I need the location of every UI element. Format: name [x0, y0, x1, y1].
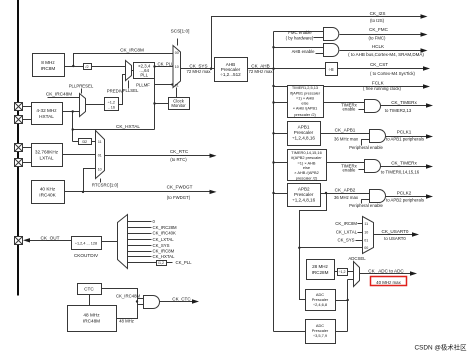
svg-text:CK_AHB: CK_AHB	[251, 63, 269, 68]
svg-text:HXTAL: HXTAL	[39, 114, 54, 119]
svg-text:PLL: PLL	[140, 73, 148, 78]
svg-text:CTC: CTC	[84, 287, 94, 292]
svg-text:to USART0: to USART0	[384, 236, 406, 241]
svg-text:48 MHz: 48 MHz	[83, 313, 100, 318]
svg-text:CK_APB1: CK_APB1	[335, 128, 356, 133]
svg-text:PCLK2: PCLK2	[397, 191, 412, 196]
svg-text:(to RTC): (to RTC)	[170, 157, 187, 162]
svg-text:/32: /32	[82, 140, 87, 144]
svg-text:÷3,5,7,9: ÷3,5,7,9	[313, 333, 327, 338]
svg-text:CK_TIMERx: CK_TIMERx	[391, 100, 417, 105]
svg-text:( free running clock): ( free running clock)	[363, 86, 402, 91]
svg-text:11: 11	[364, 222, 368, 226]
svg-text:÷8: ÷8	[328, 67, 334, 72]
svg-text:00: 00	[175, 51, 179, 55]
svg-text:PCLK1: PCLK1	[397, 130, 412, 135]
svg-text:( by hardware): ( by hardware)	[286, 35, 314, 40]
svg-text:CK_SYS: CK_SYS	[189, 63, 207, 68]
svg-text:72 MHz max: 72 MHz max	[248, 69, 273, 74]
svg-text:CK_IRC8M: CK_IRC8M	[335, 221, 357, 226]
svg-text:11: 11	[98, 140, 102, 144]
svg-text:CK_FWDGT: CK_FWDGT	[167, 185, 193, 190]
svg-text:72 MHz max: 72 MHz max	[186, 69, 211, 74]
svg-text:48 MHz: 48 MHz	[119, 318, 134, 323]
svg-text:CK_USART0: CK_USART0	[382, 229, 409, 234]
svg-text:CK_FMC: CK_FMC	[369, 27, 389, 32]
svg-text:CK_IRC28M: CK_IRC28M	[153, 225, 178, 230]
svg-text:FMC enable: FMC enable	[288, 30, 312, 35]
svg-text:CKOUTDIV: CKOUTDIV	[74, 253, 99, 258]
svg-text:PLLSEL: PLLSEL	[123, 88, 139, 93]
svg-text:PREDIV: PREDIV	[107, 89, 123, 94]
svg-text:Peripheral enable: Peripheral enable	[349, 203, 383, 208]
svg-text:SCS[1:0]: SCS[1:0]	[171, 28, 190, 33]
svg-text:32.768KHz: 32.768KHz	[35, 150, 59, 155]
svg-text:÷1,2: ÷1,2	[108, 100, 115, 104]
svg-text:HCLK: HCLK	[372, 44, 385, 49]
svg-text:CK_CST: CK_CST	[370, 62, 388, 67]
svg-text:RTCSRC[1:0]: RTCSRC[1:0]	[92, 182, 118, 187]
svg-text:÷1,2,4,8,16: ÷1,2,4,8,16	[292, 197, 315, 202]
svg-text:00: 00	[364, 246, 368, 250]
svg-text:(to FMC): (to FMC)	[369, 35, 387, 40]
svg-text:40 KHz: 40 KHz	[40, 187, 56, 192]
svg-text:to TIMER0,14,15,16: to TIMER0,14,15,16	[381, 169, 420, 174]
svg-text:CK_PLL: CK_PLL	[176, 260, 193, 265]
svg-text:CK_SYS: CK_SYS	[338, 238, 355, 243]
svg-text:CK_I2S: CK_I2S	[370, 11, 386, 16]
svg-text:÷1,2...512: ÷1,2...512	[220, 72, 241, 77]
svg-text:01: 01	[364, 239, 368, 243]
svg-text:8 MHz: 8 MHz	[41, 60, 55, 65]
svg-text:( to AHB bus,Cortex-M4, SRAM,D: ( to AHB bus,Cortex-M4, SRAM,DMA)	[348, 52, 424, 57]
svg-text:CK_CTC: CK_CTC	[172, 296, 191, 301]
svg-text:ADCSEL: ADCSEL	[348, 256, 366, 261]
svg-text:IRC40K: IRC40K	[39, 193, 56, 198]
svg-text:× AHB /(APB1: × AHB /(APB1	[293, 106, 318, 111]
svg-text:01: 01	[175, 83, 179, 87]
svg-text:Prescaler: Prescaler	[294, 130, 314, 135]
svg-text:to APB2 peripherals: to APB2 peripherals	[386, 198, 424, 203]
svg-text:10: 10	[364, 231, 368, 235]
svg-text:PLLPRESEL: PLLPRESEL	[69, 84, 94, 89]
svg-text:CK_IRC8M: CK_IRC8M	[153, 249, 175, 254]
svg-text:÷1,2,4 ... 128: ÷1,2,4 ... 128	[75, 242, 97, 246]
svg-text:CK_OUT: CK_OUT	[40, 235, 59, 240]
svg-text:to APB1 peripherals: to APB1 peripherals	[386, 136, 424, 141]
svg-text:10: 10	[175, 65, 179, 69]
svg-text:prescaler /2): prescaler /2)	[294, 112, 316, 117]
svg-text:IRC48M: IRC48M	[83, 319, 100, 324]
svg-text:AHB enable: AHB enable	[292, 49, 316, 54]
svg-text:CK_RTC: CK_RTC	[170, 149, 189, 154]
svg-text:CK_APB2: CK_APB2	[335, 187, 356, 192]
svg-text:CK_LXTAL: CK_LXTAL	[336, 230, 358, 235]
svg-text:36 MHz max: 36 MHz max	[334, 195, 359, 200]
svg-text:CK_ ADC to ADC: CK_ ADC to ADC	[368, 268, 404, 273]
svg-text:÷1,2,4,8,16: ÷1,2,4,8,16	[292, 136, 315, 141]
svg-text:prescaler /2): prescaler /2)	[296, 175, 318, 180]
svg-text:/2: /2	[85, 65, 88, 69]
svg-text:/1,2: /1,2	[158, 261, 164, 265]
svg-text:enable: enable	[343, 107, 357, 112]
svg-text:(to I2S): (to I2S)	[370, 18, 385, 23]
svg-text:Monitor: Monitor	[171, 103, 186, 108]
svg-text:CK_IRC48M: CK_IRC48M	[116, 293, 141, 298]
svg-text:CK_IRC48M: CK_IRC48M	[46, 92, 72, 97]
svg-text:CSDN @极术社区: CSDN @极术社区	[415, 343, 468, 352]
svg-text:CK_SYS: CK_SYS	[153, 243, 170, 248]
svg-text:IRC8M: IRC8M	[41, 66, 56, 71]
svg-text:10: 10	[98, 167, 102, 171]
svg-text:÷2,4,6,8: ÷2,4,6,8	[313, 302, 327, 307]
svg-text:Peripheral enable: Peripheral enable	[349, 145, 383, 150]
svg-text:CK_LXTAL: CK_LXTAL	[153, 237, 175, 242]
svg-text:36 MHz max: 36 MHz max	[334, 136, 359, 141]
svg-text:28 MHz: 28 MHz	[312, 264, 329, 269]
svg-text:01: 01	[98, 154, 102, 158]
svg-text:4-32 MHz: 4-32 MHz	[36, 108, 57, 113]
svg-text:( to Cortex-M4 SysTick): ( to Cortex-M4 SysTick)	[370, 71, 416, 76]
svg-text:FCLK: FCLK	[372, 81, 385, 86]
svg-text:÷1,2: ÷1,2	[339, 270, 346, 274]
svg-text:enable: enable	[343, 168, 357, 173]
svg-text:APB2: APB2	[298, 187, 310, 192]
svg-text:CK_HXTAL: CK_HXTAL	[153, 254, 175, 259]
svg-text:(to FWDGT): (to FWDGT)	[167, 195, 191, 200]
svg-text:CK_PLL: CK_PLL	[157, 62, 174, 67]
svg-text:IRC28M: IRC28M	[312, 270, 329, 275]
svg-text:.. 16: .. 16	[108, 105, 115, 109]
svg-text:LXTAL: LXTAL	[40, 156, 54, 161]
svg-text:40 MHz max: 40 MHz max	[376, 280, 401, 285]
svg-text:CK_IRC8M: CK_IRC8M	[120, 47, 144, 52]
svg-text:to TIMER2,13: to TIMER2,13	[385, 108, 412, 113]
svg-text:CK_HXTAL: CK_HXTAL	[116, 124, 140, 129]
svg-text:CK_TIMERx: CK_TIMERx	[391, 160, 417, 165]
svg-text:APB1: APB1	[298, 125, 310, 130]
svg-text:PLLMF: PLLMF	[136, 83, 150, 88]
svg-text:CK_IRC40K: CK_IRC40K	[153, 231, 177, 236]
svg-text:Prescaler: Prescaler	[294, 192, 314, 197]
